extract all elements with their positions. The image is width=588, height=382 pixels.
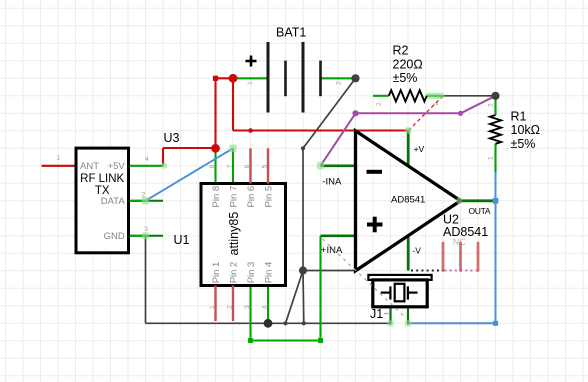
stub U2 NC pin c <box>477 243 480 271</box>
ratsnest dotted NC purple <box>445 270 479 272</box>
svg-text:Pin 8: Pin 8 <box>211 186 222 208</box>
stub attiny pin6 <box>249 148 251 183</box>
stub R1 top <box>494 96 496 115</box>
stub U2 NC pin a <box>442 243 445 271</box>
wire attiny pin4 <box>267 286 269 324</box>
wire blue DATA diagonal <box>146 148 234 201</box>
resistor R2 zigzag <box>389 90 427 101</box>
wire battery minus diagonal <box>303 78 356 148</box>
svg-text:5: 5 <box>262 165 269 169</box>
svg-text:BAT1: BAT1 <box>276 26 306 40</box>
stub attiny pin2 <box>232 286 234 322</box>
IC U1 attiny85 box <box>201 184 286 286</box>
node blue OUTA <box>493 198 499 204</box>
svg-text:Pin 5: Pin 5 <box>263 186 274 208</box>
wire red U3 corner down <box>162 148 164 166</box>
svg-text:220Ω: 220Ω <box>393 58 423 72</box>
glow -INA node <box>317 162 325 170</box>
wire R2 right to R1 top <box>443 95 496 97</box>
svg-text:+5V: +5V <box>108 161 126 172</box>
stub R1 bottom <box>494 144 496 172</box>
svg-text:7: 7 <box>227 165 234 169</box>
node purple bend <box>352 110 358 116</box>
ratsnest gray dashed to J1 <box>323 239 407 318</box>
node purple right <box>458 111 463 116</box>
ratsnest red dashed R2 to +V <box>408 96 443 131</box>
svg-text:1: 1 <box>247 81 254 85</box>
wire red +V horizontal <box>233 129 408 131</box>
glow R2 right stub <box>426 93 445 99</box>
wire gnd short vertical to bus <box>302 271 305 324</box>
svg-text:3: 3 <box>244 305 251 309</box>
node red junction U3 <box>211 144 220 153</box>
node gray battery minus <box>351 74 359 82</box>
stub R2 right <box>427 95 443 97</box>
wire purple horizontal <box>356 112 461 114</box>
IC U3 RF LINK TX box <box>76 148 129 253</box>
green corner handle left <box>248 338 253 343</box>
battery BAT1 <box>268 42 321 113</box>
glow DATA junction <box>142 197 150 205</box>
glow green corner right <box>318 338 324 344</box>
svg-text:8: 8 <box>209 165 216 169</box>
svg-text:-V: -V <box>412 245 421 255</box>
svg-text:OUTA: OUTA <box>469 206 491 216</box>
node gray small diag <box>301 146 305 150</box>
svg-text:6: 6 <box>244 165 251 169</box>
wire red U3 horizontal <box>163 147 216 149</box>
wire RF LINK DATA green <box>129 200 146 202</box>
node red square <box>213 76 218 81</box>
wire attiny pin8 <box>214 148 216 183</box>
svg-text:2: 2 <box>227 305 234 309</box>
wire gnd diagonal to bus <box>286 271 304 324</box>
stub J1 pin1 <box>389 307 391 325</box>
svg-text:10kΩ: 10kΩ <box>511 123 541 137</box>
svg-text:-INA: -INA <box>322 176 342 187</box>
ratsnest dotted -V black <box>411 270 444 272</box>
op-amp U2 triangle <box>356 131 461 271</box>
svg-text:Pin 1: Pin 1 <box>211 262 222 284</box>
wire purple -INA diagonal <box>321 113 356 166</box>
ratsnest gray dash mark <box>384 313 389 315</box>
svg-text:2: 2 <box>488 103 495 107</box>
glow +V node <box>405 127 412 134</box>
svg-text:Pin 7: Pin 7 <box>228 186 239 208</box>
wire ANT red <box>42 165 77 167</box>
svg-text:3: 3 <box>144 226 148 233</box>
svg-text:±5%: ±5% <box>511 137 536 151</box>
wire blue J1 horizontal <box>408 322 496 324</box>
svg-text:1: 1 <box>209 305 216 309</box>
svg-text:2: 2 <box>376 102 383 106</box>
resistor R1 zigzag <box>490 115 501 144</box>
node gray bus small a <box>283 321 287 325</box>
op-amp plus input sign <box>367 217 383 233</box>
svg-text:U3: U3 <box>164 131 180 145</box>
svg-text:1: 1 <box>433 102 440 106</box>
svg-text:AD8541: AD8541 <box>391 194 425 205</box>
svg-text:GND: GND <box>104 231 125 242</box>
svg-text:+V: +V <box>414 144 425 154</box>
stub J1 pin2 <box>407 307 409 325</box>
svg-text:R2: R2 <box>393 44 409 58</box>
svg-text:DATA: DATA <box>101 196 126 207</box>
wire red battery top link <box>216 77 234 79</box>
stub op-amp -V <box>407 236 410 271</box>
stub op-amp -INA <box>321 165 356 168</box>
wire RF LINK GND green <box>129 235 146 237</box>
svg-text:U1: U1 <box>174 233 190 247</box>
node blue corner <box>493 321 498 326</box>
stub R2 left <box>373 95 389 97</box>
wire battery minus green <box>321 77 356 79</box>
glow green corner left <box>248 338 254 344</box>
svg-text:attiny85: attiny85 <box>227 212 241 256</box>
stub U2 NC pin b <box>459 243 462 271</box>
wire green bottom horizontal <box>251 339 321 341</box>
wire blue OUTA vertical <box>495 172 497 323</box>
wire red left vertical <box>214 78 216 148</box>
glow blue-green node <box>229 145 237 153</box>
node gray bus small b <box>302 321 306 325</box>
node gray mid <box>299 266 307 274</box>
glow GND junction <box>142 232 149 239</box>
stub RF LINK +5V <box>129 165 164 167</box>
svg-text:1: 1 <box>488 156 495 160</box>
wire battery plus green <box>233 77 268 79</box>
stub attiny pin5 <box>267 148 269 183</box>
svg-text:Pin 6: Pin 6 <box>246 186 257 208</box>
wire gnd bottom bus <box>146 322 391 324</box>
node gray bus pin4 <box>264 319 273 328</box>
stub RF LINK DATA dark <box>129 200 164 202</box>
node red junction battery <box>229 74 238 83</box>
svg-text:RF LINK: RF LINK <box>80 173 124 185</box>
node red small <box>248 128 253 133</box>
connector J1 body <box>373 280 427 307</box>
svg-text:Pin 3: Pin 3 <box>246 262 257 284</box>
stub attiny pin1 <box>214 286 216 322</box>
svg-text:ANT: ANT <box>80 161 99 172</box>
stub op-amp OUTA <box>461 199 496 202</box>
wire gnd to opamp bottom vertex <box>303 270 356 272</box>
stub op-amp +INA <box>321 235 356 238</box>
node gray R1 top <box>491 92 499 100</box>
svg-text:±5%: ±5% <box>393 71 418 85</box>
wire gnd vertical mid <box>302 148 304 270</box>
wire red right vertical <box>232 78 234 130</box>
svg-text:2: 2 <box>335 81 342 85</box>
stub op-amp +V <box>407 131 410 166</box>
J1 crystal element <box>381 284 418 302</box>
glow +5V junction <box>162 163 168 169</box>
svg-text:R1: R1 <box>511 109 527 123</box>
wire attiny pin3 <box>249 286 251 341</box>
wire gnd from RF LINK down <box>145 236 147 323</box>
svg-text:J1: J1 <box>370 307 383 321</box>
connector J1 top plate <box>368 275 431 280</box>
wire green +INA vertical <box>319 236 321 341</box>
glow J1 pin2 <box>405 320 412 327</box>
glow J1 pin1 <box>387 320 394 327</box>
wire purple diagonal to R1 <box>461 96 496 114</box>
stub RF LINK GND dark <box>129 235 164 237</box>
battery plus sign <box>246 56 257 67</box>
svg-text:Pin 4: Pin 4 <box>263 262 274 284</box>
svg-text:1: 1 <box>57 155 61 162</box>
svg-text:4: 4 <box>262 305 269 309</box>
svg-text:Pin 2: Pin 2 <box>228 262 239 284</box>
op-amp minus input sign <box>367 170 383 174</box>
svg-text:4: 4 <box>145 156 149 163</box>
glow OUTA apex <box>457 198 463 204</box>
green corner handle right <box>318 338 323 343</box>
wire attiny pin7 <box>232 148 234 183</box>
